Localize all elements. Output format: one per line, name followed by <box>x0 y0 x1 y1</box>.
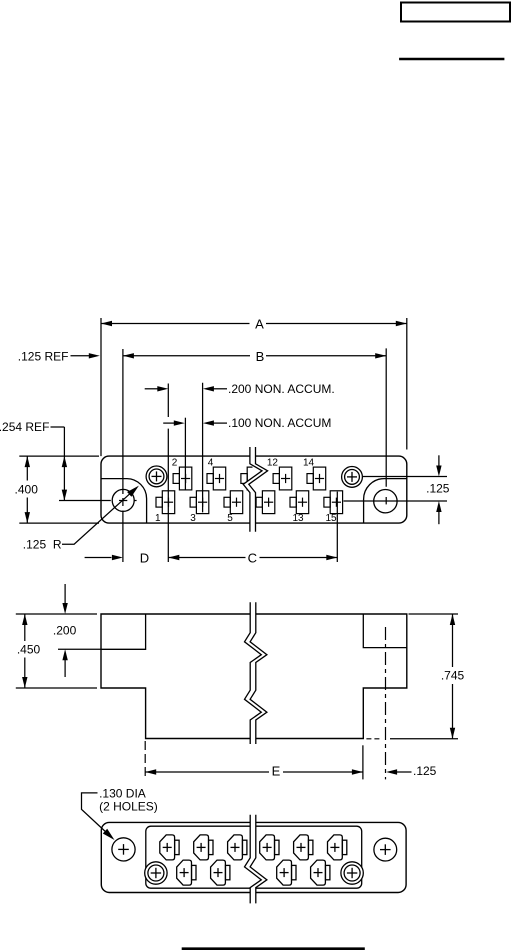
side .125 arrow line <box>397 771 412 773</box>
.125 right bottom arrow <box>436 501 441 512</box>
dim C arrow left <box>168 555 179 560</box>
pocket outline right <box>364 479 407 523</box>
.125 REF leader line <box>71 355 90 357</box>
svg-text:.400: .400 <box>15 482 39 496</box>
.125 R arrow <box>127 486 139 497</box>
svg-text:14: 14 <box>303 458 315 469</box>
.745 dim line upper <box>452 614 454 667</box>
socket contact top row x=336.4 (bottom view) <box>328 835 347 860</box>
body-top extension line <box>19 455 99 457</box>
svg-text:.125: .125 <box>426 481 450 495</box>
side bottom-step extension line left <box>16 687 97 689</box>
left hole center dash vertical <box>122 498 124 506</box>
svg-text:.130 DIA: .130 DIA <box>99 786 146 800</box>
.125 right top arrow <box>436 466 441 477</box>
side view body outline <box>101 614 407 739</box>
side top extension line right <box>409 613 459 615</box>
dim C line right part <box>260 557 338 559</box>
.200 right arrow <box>203 386 214 391</box>
svg-text:.745: .745 <box>441 669 465 683</box>
pin15 extension line (down to dim C) <box>336 492 338 562</box>
svg-text:15: 15 <box>325 513 337 524</box>
partial contact at break (front view) <box>241 467 253 490</box>
svg-text:.125 REF: .125 REF <box>18 349 69 363</box>
dim E arrow left <box>145 769 156 774</box>
contact 12 (front view) <box>273 467 292 490</box>
.125 right top arrow line <box>438 455 440 466</box>
side .200 extension line <box>58 648 101 650</box>
.125 right bottom arrow line <box>438 512 440 524</box>
.100 right arrow <box>203 420 214 425</box>
contact 15 (front view) <box>324 491 343 514</box>
.450 arrow up <box>22 614 27 625</box>
svg-text:2: 2 <box>172 458 178 469</box>
dim B line right part <box>266 355 386 357</box>
svg-text:(2 HOLES): (2 HOLES) <box>99 799 158 813</box>
dim D arrow <box>112 555 123 560</box>
socket contact top row x=302.5 (bottom view) <box>294 835 313 860</box>
contact 4 (front view) <box>207 467 226 490</box>
svg-text:.125 R: .125 R <box>23 537 62 551</box>
.100 left arrow line <box>163 422 174 424</box>
side bottom extension line right <box>390 738 458 740</box>
dim A extension line left <box>100 318 102 456</box>
dim C arrow right <box>326 555 337 560</box>
bottom heavy rule <box>182 947 365 950</box>
side view notch left <box>101 614 146 649</box>
.200 right arrow line <box>214 388 228 390</box>
dim A arrow left <box>101 321 112 326</box>
dim D arrow line <box>85 557 112 559</box>
socket contact bottom row x=185.6 (bottom view) <box>177 860 196 885</box>
left hole centerline right stub <box>134 500 137 502</box>
.100 left arrow <box>174 420 185 425</box>
dim A line right part <box>266 323 407 325</box>
.130 DIA leader <box>82 793 109 834</box>
svg-text:.450: .450 <box>17 642 41 656</box>
dim B arrow left <box>123 353 134 358</box>
svg-text:A: A <box>255 317 264 332</box>
.100 extension line (pin 2, down through contact) <box>184 418 186 490</box>
title underline <box>399 58 504 60</box>
dim A line left part <box>101 323 250 325</box>
svg-text:.254 REF: .254 REF <box>0 420 49 434</box>
contact 5 (front view) <box>224 491 243 514</box>
socket contact bottom row x=285.6 (bottom view) <box>277 860 296 885</box>
screw contact left (front view) <box>146 466 167 487</box>
side .200 bottom arrow line <box>64 660 66 677</box>
socket contact top row x=168.7 (bottom view) <box>160 835 179 860</box>
svg-text:D: D <box>140 551 149 566</box>
dim B extension line left upper (through left hole to dim D) <box>122 349 124 494</box>
body-bottom extension line <box>19 522 99 524</box>
dim B line left part <box>123 355 250 357</box>
screw contact right (bottom view) <box>341 862 363 884</box>
socket contact top row x=202.6 (bottom view) <box>194 835 213 860</box>
dim E extension left (dashed) <box>144 741 146 779</box>
dim B extension line right (to right hole) <box>385 348 387 486</box>
mounting hole right (bottom view) <box>374 838 397 861</box>
.450 arrow down <box>22 677 27 688</box>
mounting hole left (front view) <box>112 489 134 511</box>
side .125 arrow <box>386 769 397 774</box>
svg-text:5: 5 <box>227 513 233 524</box>
screw contact left (bottom view) <box>145 862 167 884</box>
connector body (front view) <box>101 456 407 523</box>
right hole centerline to .125 dim <box>344 500 448 502</box>
side .200 bottom arrow <box>62 649 67 660</box>
side .200 top arrow <box>62 603 67 614</box>
contact 11 (front view) <box>256 491 275 514</box>
svg-text:B: B <box>256 349 265 364</box>
insert pocket outline (bottom view) <box>146 826 362 888</box>
dim E arrow right <box>352 769 363 774</box>
title block box <box>401 3 510 22</box>
.745 arrow down <box>450 728 455 739</box>
.130 DIA arrow <box>103 829 115 840</box>
socket contact top row x=268.6 (bottom view) <box>260 835 279 860</box>
side top extension line left <box>16 613 97 615</box>
socket contact bottom row x=219.5 (bottom view) <box>211 860 230 885</box>
.400 dim line upper <box>26 456 28 480</box>
hidden edge segment <box>366 738 381 740</box>
.400 dim line lower <box>26 498 28 524</box>
contact 3 (front view) <box>190 491 209 514</box>
dim E extension right <box>362 745 364 779</box>
contact 2 (front view) <box>173 467 192 490</box>
side view notch right <box>363 614 407 648</box>
.400 arrow down <box>25 512 30 523</box>
.254 REF leader elbow <box>51 426 65 428</box>
dim A extension line right <box>406 318 408 450</box>
contact 14 (front view) <box>307 467 326 490</box>
dim B arrow right <box>375 353 386 358</box>
.100 right arrow line <box>214 422 228 424</box>
dim B extension line left lower <box>122 511 124 563</box>
mounting hole left (bottom view) <box>112 838 135 861</box>
.450 dim line upper <box>24 614 26 641</box>
.200 extension line (pin 3, down through contact) <box>202 383 204 513</box>
pin1 extension overdraw <box>167 429 169 562</box>
hole centerline (side view, dash-dot) <box>385 627 387 779</box>
connector body (bottom view) <box>101 822 406 892</box>
break lines (bottom view) <box>245 815 267 904</box>
.200 left arrow line <box>145 388 158 390</box>
dim A arrow right <box>396 321 407 326</box>
.254 REF dim line <box>63 427 65 501</box>
svg-text:.200: .200 <box>53 623 77 637</box>
.125 REF arrow <box>89 353 100 358</box>
dim E line right part <box>283 771 363 773</box>
.400 arrow up <box>25 456 30 467</box>
left hole center dash horizontal <box>119 500 127 502</box>
screw contact right (front view) <box>342 467 363 488</box>
svg-text:12: 12 <box>267 458 279 469</box>
break lines (side view) <box>245 602 267 744</box>
svg-text:.100 NON. ACCUM: .100 NON. ACCUM <box>228 416 331 430</box>
contact 13 (front view) <box>290 491 309 514</box>
.254 REF arrow up <box>62 456 67 467</box>
mounting hole right (front view) <box>374 490 397 513</box>
svg-text:.200 NON. ACCUM.: .200 NON. ACCUM. <box>228 382 335 396</box>
svg-text:3: 3 <box>190 513 196 524</box>
contact 1 (front view) <box>156 491 175 514</box>
side .200 top arrow line <box>64 584 66 604</box>
.450 dim line lower <box>24 658 26 689</box>
dim E line left part <box>145 771 269 773</box>
svg-text:C: C <box>248 551 257 566</box>
.125 R leader <box>62 493 131 545</box>
socket contact bottom row x=319.5 (bottom view) <box>311 860 330 885</box>
.200 extension line upper (pin 1) <box>167 384 169 418</box>
right hole center dash vertical <box>385 497 387 504</box>
svg-text:4: 4 <box>208 458 214 469</box>
.200 left arrow <box>157 386 168 391</box>
svg-text:13: 13 <box>292 513 304 524</box>
socket contact top row x=236.5 (bottom view) <box>228 835 247 860</box>
dim C line left part <box>168 557 245 559</box>
break lines (front view) <box>243 447 267 532</box>
.745 dim line lower <box>452 684 454 739</box>
right screw centerline to .125 dim <box>363 476 447 478</box>
hole centerline extension left <box>59 500 111 502</box>
svg-text:.125: .125 <box>413 764 437 778</box>
pocket outline left <box>101 479 147 523</box>
svg-text:E: E <box>272 764 281 779</box>
.254 REF arrow down <box>62 490 67 501</box>
.745 arrow up <box>450 614 455 625</box>
svg-text:1: 1 <box>155 513 161 524</box>
